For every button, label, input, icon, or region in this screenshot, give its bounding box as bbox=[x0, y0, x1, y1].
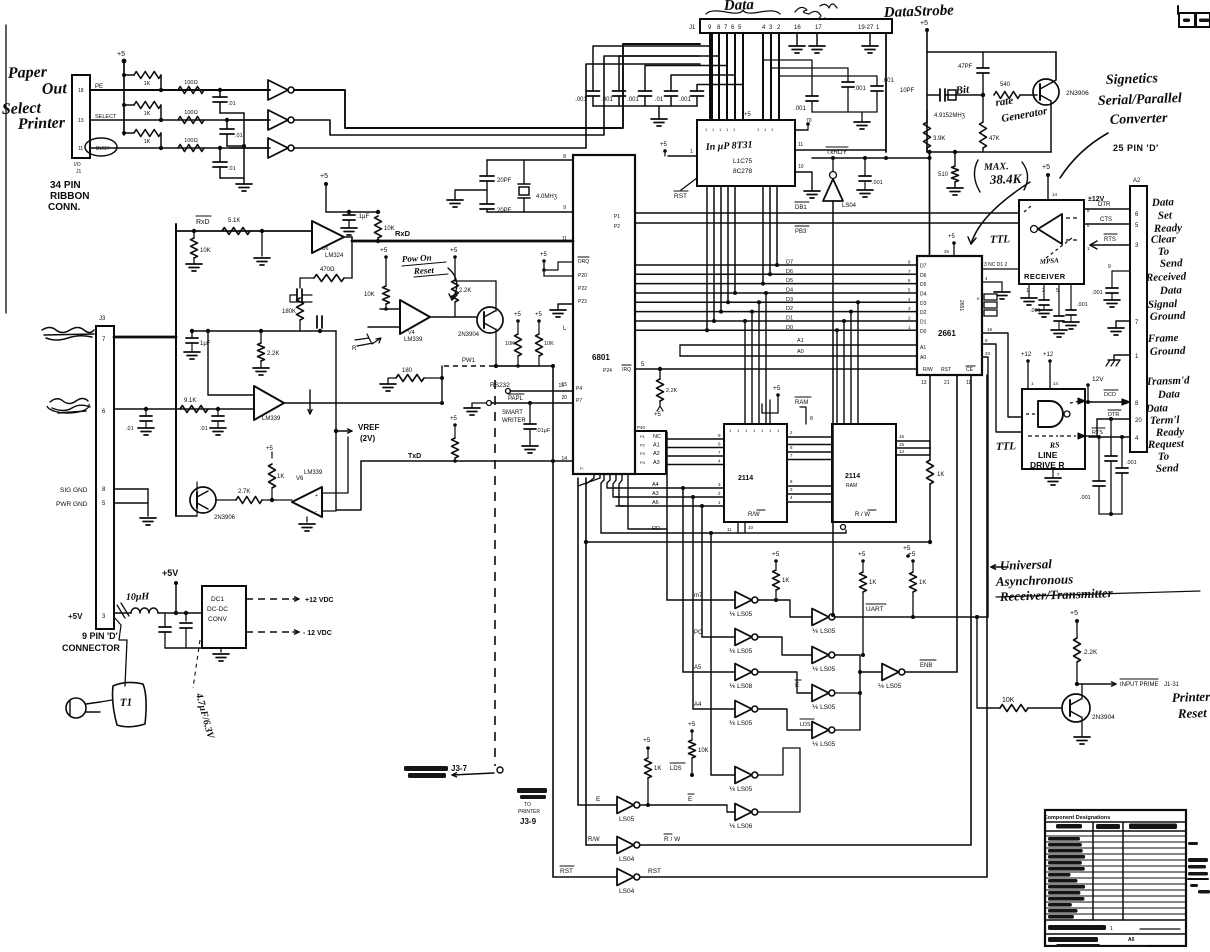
crystal 4.9152MHz bbox=[927, 94, 940, 96]
svg-text:2N3906: 2N3906 bbox=[1066, 90, 1089, 97]
left staircase bypass caps bbox=[593, 46, 710, 91]
svg-text:8: 8 bbox=[810, 416, 813, 422]
wire vertical x578 bbox=[577, 478, 579, 805]
svg-text:LINE: LINE bbox=[1038, 450, 1058, 460]
resistor 2.2K irq bbox=[658, 367, 662, 371]
svg-text:10: 10 bbox=[798, 164, 804, 170]
inverter U10c LS08 bbox=[683, 671, 735, 673]
svg-text:2.2K: 2.2K bbox=[1084, 649, 1098, 656]
resistor 10K to gnd bbox=[192, 229, 196, 233]
IC U4 2114 RAM bbox=[832, 424, 896, 522]
svg-text:⅙ LS05: ⅙ LS05 bbox=[729, 720, 753, 727]
dashed PW1 line bbox=[444, 365, 496, 367]
svg-text:⅙ LS05: ⅙ LS05 bbox=[878, 683, 902, 690]
handwriting Universal Asynchronous Receiver Transmitter bbox=[991, 566, 1008, 568]
2661 pin13 1K pullup bbox=[929, 375, 931, 460]
svg-text:+: + bbox=[315, 493, 318, 499]
driver AND gate bbox=[1038, 401, 1063, 427]
svg-text:DCD: DCD bbox=[1104, 392, 1116, 398]
svg-text:Send: Send bbox=[1160, 257, 1184, 270]
svg-text:+5: +5 bbox=[773, 385, 781, 392]
svg-text:J3: J3 bbox=[99, 316, 106, 322]
svg-text:Out: Out bbox=[42, 80, 68, 98]
svg-text:rate: rate bbox=[995, 95, 1014, 109]
bit rate osc top wire bbox=[927, 51, 1056, 53]
gnd mid bbox=[260, 229, 264, 233]
resistor 2.2K mid bbox=[259, 329, 263, 333]
IC U5 2661 EPCI bbox=[917, 256, 982, 375]
svg-text:100Ω: 100Ω bbox=[184, 110, 197, 116]
svg-text:D7: D7 bbox=[786, 260, 793, 266]
svg-text:CONNECTOR: CONNECTOR bbox=[62, 643, 120, 653]
svg-text:9 PIN 'D': 9 PIN 'D' bbox=[82, 631, 118, 641]
2661 to line driver wire2 bbox=[982, 344, 1022, 432]
svg-text:Transm'd: Transm'd bbox=[1146, 374, 1190, 388]
svg-text:Universal: Universal bbox=[1000, 556, 1053, 573]
svg-text:P4: P4 bbox=[640, 460, 646, 465]
svg-text:J1: J1 bbox=[76, 169, 82, 175]
svg-text:34 PIN: 34 PIN bbox=[50, 180, 81, 191]
cap .001 txrdy bbox=[863, 156, 867, 160]
wire PE row bbox=[90, 89, 270, 91]
svg-text:P1: P1 bbox=[640, 434, 646, 439]
6801 port extension block bbox=[635, 431, 666, 474]
svg-text:SIG GND: SIG GND bbox=[60, 487, 88, 494]
power gnd wire bbox=[165, 647, 221, 649]
svg-text:CE: CE bbox=[966, 367, 974, 373]
op-amp V6 LM339 left-facing bbox=[292, 487, 322, 517]
A2 area caps bbox=[1098, 437, 1100, 481]
arrow INPUT PRIME bbox=[1077, 683, 1116, 685]
svg-text:14: 14 bbox=[899, 449, 905, 454]
svg-text:D5: D5 bbox=[786, 278, 793, 284]
svg-text:4.9152MHʒ: 4.9152MHʒ bbox=[934, 113, 966, 119]
svg-text:J3-9: J3-9 bbox=[520, 817, 537, 826]
cap smart bbox=[528, 401, 532, 405]
wire data D2 bbox=[635, 311, 917, 313]
IC U1 6801 MPU bbox=[573, 155, 635, 474]
svg-text:D4: D4 bbox=[786, 288, 793, 294]
svg-text:D4: D4 bbox=[920, 292, 927, 298]
svg-text:E: E bbox=[596, 796, 601, 803]
osc bottom wire bbox=[927, 151, 1051, 153]
IC U7 1489 receiver bbox=[1019, 200, 1084, 284]
6801 bottom pin stubs bbox=[603, 474, 605, 480]
2661 pin21 vertical bbox=[956, 375, 958, 672]
svg-text:10K: 10K bbox=[544, 341, 554, 347]
svg-text:1K: 1K bbox=[937, 472, 944, 478]
svg-text:RST: RST bbox=[560, 868, 573, 875]
svg-text:11: 11 bbox=[798, 142, 803, 148]
svg-text:.001: .001 bbox=[627, 97, 639, 103]
wire gnd pins 8 5 bbox=[114, 488, 148, 490]
RAM R/W bottom wires bbox=[744, 522, 746, 533]
cap 1uF node bbox=[318, 329, 322, 333]
svg-text:5.1K: 5.1K bbox=[228, 218, 240, 224]
svg-text:+5: +5 bbox=[858, 551, 866, 558]
svg-text:+5: +5 bbox=[688, 721, 696, 728]
svg-text:LDS: LDS bbox=[800, 722, 811, 728]
transistor Q3 2N3904 bbox=[430, 316, 477, 318]
table footer bbox=[1048, 925, 1106, 930]
svg-text:⅙ LS06: ⅙ LS06 bbox=[729, 823, 753, 830]
scribble to printer J3-9 bbox=[517, 788, 547, 793]
wire data line bbox=[706, 186, 708, 330]
svg-text:P22: P22 bbox=[578, 286, 587, 292]
svg-text:A1: A1 bbox=[797, 338, 804, 344]
op-amp U6A bbox=[312, 221, 344, 253]
wires to RAM2 address pins bbox=[836, 330, 838, 424]
svg-text:11: 11 bbox=[727, 527, 732, 532]
inverter U11a LS05 output col2 bbox=[758, 600, 812, 617]
svg-text:180: 180 bbox=[402, 368, 413, 374]
svg-text:TO: TO bbox=[524, 802, 531, 808]
svg-text:R/W: R/W bbox=[748, 512, 760, 518]
svg-text:D6: D6 bbox=[786, 269, 793, 275]
svg-text:.01: .01 bbox=[228, 101, 236, 107]
wire RD feed bbox=[635, 528, 667, 530]
svg-text:R/W: R/W bbox=[588, 837, 600, 843]
wire data D0 bbox=[635, 329, 917, 331]
wire V5 output bbox=[284, 402, 442, 404]
svg-text:1K: 1K bbox=[654, 766, 661, 772]
receiver right wires CTS bbox=[1084, 223, 1130, 225]
2661 pin4 gnd bbox=[982, 281, 1002, 283]
svg-text:2.2K: 2.2K bbox=[459, 288, 471, 294]
svg-text:PAPL: PAPL bbox=[508, 396, 524, 402]
inverter U10e LS05 bbox=[711, 774, 735, 776]
svg-text:+5: +5 bbox=[643, 737, 651, 744]
svg-text:E: E bbox=[977, 296, 980, 301]
svg-text:+12: +12 bbox=[1021, 352, 1032, 358]
svg-text:TxD: TxD bbox=[408, 453, 421, 460]
svg-text:RAM: RAM bbox=[846, 483, 857, 489]
resistor 180K bbox=[299, 288, 301, 298]
svg-text:20: 20 bbox=[1135, 418, 1142, 424]
svg-text:2114: 2114 bbox=[845, 473, 860, 480]
wire to J3-7 bbox=[452, 773, 494, 775]
wire PB3 line bbox=[635, 222, 1019, 224]
J3 pin6 wire bbox=[114, 408, 254, 410]
svg-text:A1: A1 bbox=[920, 345, 926, 351]
svg-text:+5: +5 bbox=[660, 142, 668, 148]
wire vertical x586 bbox=[585, 478, 587, 845]
data bus vertical lines group1 bbox=[709, 33, 711, 120]
svg-text:LS05: LS05 bbox=[619, 816, 635, 823]
svg-text:CONN.: CONN. bbox=[48, 202, 80, 213]
inverter LS04 up bbox=[823, 179, 843, 201]
crystal gnd bbox=[455, 190, 487, 200]
svg-text:P2: P2 bbox=[614, 224, 620, 230]
svg-text:D5: D5 bbox=[920, 282, 927, 288]
svg-text:PWR GND: PWR GND bbox=[56, 501, 88, 508]
A2 pin7 gnd bbox=[1116, 321, 1130, 328]
wire data line bbox=[720, 186, 722, 312]
svg-text:TTL: TTL bbox=[996, 440, 1017, 453]
svg-text:+5: +5 bbox=[920, 20, 928, 27]
resistor 47K bbox=[981, 93, 985, 97]
resistor 1K pullup bbox=[122, 103, 126, 107]
svg-text:8: 8 bbox=[563, 154, 566, 160]
svg-text:RS: RS bbox=[1048, 440, 1060, 450]
svg-text:DRQ: DRQ bbox=[578, 259, 589, 265]
svg-text:DRIVE R: DRIVE R bbox=[1030, 460, 1064, 470]
svg-text:- 12 VDC: - 12 VDC bbox=[303, 630, 332, 637]
svg-text:P1: P1 bbox=[614, 214, 620, 220]
svg-text:⅙ LS05: ⅙ LS05 bbox=[812, 741, 836, 748]
svg-text:4.0MHʒ: 4.0MHʒ bbox=[536, 194, 558, 200]
wire inv5 out bbox=[758, 748, 783, 775]
inverter U13c LS04 RST bbox=[553, 876, 617, 878]
svg-text:14: 14 bbox=[1053, 381, 1059, 386]
ground J1 pin19-27 bbox=[869, 33, 871, 46]
svg-text:RECEIVER: RECEIVER bbox=[1024, 272, 1066, 281]
op-amp V4 LM339 bbox=[400, 300, 430, 334]
svg-text:D3: D3 bbox=[786, 297, 793, 303]
wire data D4 bbox=[635, 292, 917, 294]
svg-text:10μH: 10μH bbox=[126, 591, 151, 603]
svg-text:1: 1 bbox=[1110, 926, 1113, 932]
svg-text:⅙ LS05: ⅙ LS05 bbox=[729, 648, 753, 655]
svg-text:.1μF: .1μF bbox=[357, 214, 369, 220]
svg-text:+5: +5 bbox=[540, 252, 548, 258]
svg-text:R: R bbox=[352, 346, 357, 352]
wire data D7 bbox=[635, 264, 917, 266]
wire data D3 bbox=[635, 301, 917, 303]
driver to A2 wires bbox=[1085, 401, 1092, 403]
cap filter1 bbox=[164, 613, 166, 628]
wire RxD heavy bbox=[344, 236, 352, 238]
svg-text:CONV: CONV bbox=[208, 616, 227, 623]
svg-text:⅙ LS05: ⅙ LS05 bbox=[729, 611, 753, 618]
gnd stub P23 bbox=[558, 304, 573, 310]
pin 11 wire bbox=[795, 149, 886, 151]
IC U2 8T31 buffer bbox=[697, 120, 795, 186]
svg-text:DC-DC: DC-DC bbox=[207, 606, 228, 613]
svg-text:Converter: Converter bbox=[1110, 111, 1169, 128]
svg-text:Printer: Printer bbox=[17, 114, 66, 133]
svg-text:+5: +5 bbox=[772, 551, 780, 558]
crystal element bbox=[523, 160, 525, 184]
resistor 2.2K reset bbox=[1074, 638, 1081, 662]
wire ENB bbox=[905, 671, 957, 673]
svg-text:510: 510 bbox=[938, 172, 949, 178]
svg-text:2N3904: 2N3904 bbox=[458, 332, 480, 338]
wire data line bbox=[713, 186, 715, 321]
2661 R/W vertical bbox=[970, 375, 972, 845]
ground J1 pin16 bbox=[796, 33, 798, 46]
svg-text:P:: P: bbox=[580, 466, 584, 471]
capacitor .01 row1 bbox=[218, 88, 222, 92]
svg-text:16: 16 bbox=[794, 25, 801, 31]
svg-text:R/W: R/W bbox=[923, 367, 933, 373]
resistor 100 ohm bbox=[178, 117, 204, 124]
svg-text:RxD: RxD bbox=[395, 229, 411, 238]
svg-text:P7: P7 bbox=[576, 398, 582, 404]
svg-text:20PF: 20PF bbox=[497, 178, 512, 184]
svg-text:PRINTER: PRINTER bbox=[518, 809, 540, 815]
svg-text:INPUT PRIME: INPUT PRIME bbox=[1120, 682, 1159, 688]
pin 70 +5 stub bbox=[795, 129, 808, 131]
svg-text:10K: 10K bbox=[364, 292, 375, 298]
svg-text:LS04: LS04 bbox=[619, 888, 635, 895]
transformer T1 bbox=[113, 682, 147, 726]
wire TxD bbox=[361, 460, 573, 462]
svg-text:+5: +5 bbox=[450, 416, 458, 422]
svg-text:I/O: I/O bbox=[74, 162, 81, 168]
wire E out bbox=[640, 804, 727, 806]
svg-text:100Ω: 100Ω bbox=[184, 80, 197, 86]
wire RxD input row bbox=[176, 230, 312, 232]
AC plug bbox=[66, 698, 86, 718]
IC U8 1488 line driver bbox=[1022, 389, 1085, 469]
svg-text:VREF: VREF bbox=[358, 423, 379, 432]
svg-text:.001: .001 bbox=[679, 97, 691, 103]
svg-text:T1: T1 bbox=[120, 697, 133, 709]
svg-text:D0: D0 bbox=[920, 329, 927, 335]
uart to base vertical bbox=[976, 617, 978, 708]
svg-text:.001: .001 bbox=[1077, 302, 1088, 308]
svg-text:R / W: R / W bbox=[855, 512, 870, 518]
svg-text:IRQ: IRQ bbox=[622, 367, 631, 373]
wire A1 row bbox=[680, 344, 917, 346]
resistor 2.7K base bbox=[216, 499, 236, 501]
svg-text:⅙ LS05: ⅙ LS05 bbox=[812, 628, 836, 635]
svg-text:P2: P2 bbox=[640, 443, 646, 448]
scribble gnd note bbox=[795, 7, 825, 19]
svg-text:+5: +5 bbox=[654, 412, 662, 418]
svg-text:LDS: LDS bbox=[670, 766, 682, 772]
svg-text:Data: Data bbox=[1151, 196, 1175, 209]
svg-text:Data: Data bbox=[1159, 284, 1183, 297]
resistor 540 bbox=[983, 88, 994, 90]
svg-text:PC: PC bbox=[694, 630, 703, 636]
wire data line bbox=[762, 186, 764, 284]
-12VDC output bbox=[246, 631, 293, 633]
inverter U13b LS04 RW bbox=[586, 844, 617, 846]
svg-text:A2: A2 bbox=[1133, 178, 1141, 184]
svg-text:1: 1 bbox=[690, 149, 693, 155]
cap 2 j3 bbox=[216, 407, 220, 411]
analog mid wire bbox=[192, 330, 336, 332]
svg-text:11: 11 bbox=[78, 146, 83, 152]
svg-text:2661: 2661 bbox=[938, 329, 956, 338]
svg-text:⅙ LS05: ⅙ LS05 bbox=[812, 666, 836, 673]
wire inv2 out bbox=[185, 119, 294, 121]
cap 1uF left bbox=[190, 329, 194, 333]
svg-text:540: 540 bbox=[1000, 82, 1011, 88]
svg-text:.001: .001 bbox=[1030, 308, 1041, 314]
component designation table bbox=[1045, 810, 1186, 946]
wire J3 pin3 bbox=[114, 612, 131, 614]
svg-text:Paper: Paper bbox=[7, 64, 48, 82]
svg-text:13: 13 bbox=[78, 118, 84, 124]
svg-text:V6: V6 bbox=[296, 476, 304, 482]
scribble crossed out label2 bbox=[50, 399, 90, 414]
svg-text:V4: V4 bbox=[408, 330, 415, 336]
svg-text:.001: .001 bbox=[854, 86, 866, 92]
svg-text:.01: .01 bbox=[228, 166, 236, 172]
svg-text:9: 9 bbox=[1108, 264, 1111, 270]
svg-text:RIBBON: RIBBON bbox=[50, 191, 89, 202]
svg-text:Received: Received bbox=[1145, 271, 1187, 284]
svg-text:.01μF: .01μF bbox=[536, 428, 551, 434]
wire UART out bbox=[835, 616, 988, 618]
svg-text:.01: .01 bbox=[200, 426, 208, 432]
svg-text:LS04: LS04 bbox=[842, 203, 857, 209]
+12VDC output bbox=[246, 598, 293, 600]
swoosh curve bbox=[1060, 133, 1108, 178]
resistor 1K pullup bbox=[122, 131, 126, 135]
svg-text:1K: 1K bbox=[277, 474, 284, 480]
svg-text:DC1: DC1 bbox=[211, 596, 224, 603]
svg-text:+5: +5 bbox=[535, 312, 543, 318]
receiver triangle bbox=[1038, 214, 1062, 244]
svg-text:D1: D1 bbox=[786, 316, 793, 322]
svg-text:P3: P3 bbox=[640, 451, 646, 456]
wire TxRDY bbox=[812, 157, 930, 159]
svg-text:RTS: RTS bbox=[1104, 237, 1116, 243]
svg-text:.001: .001 bbox=[1080, 495, 1091, 501]
svg-text:U6: U6 bbox=[322, 246, 329, 252]
LS04 input vertical bbox=[832, 201, 834, 615]
inverter U10f LS06 bbox=[727, 811, 735, 813]
svg-text:+5: +5 bbox=[908, 551, 916, 558]
svg-text:16: 16 bbox=[899, 434, 905, 439]
svg-text:D2: D2 bbox=[786, 306, 793, 312]
capacitor .01 row3 bbox=[218, 146, 222, 150]
svg-text:100Ω: 100Ω bbox=[184, 138, 197, 144]
RAM2 right rows to pullup bbox=[896, 440, 930, 442]
svg-text:.001: .001 bbox=[575, 97, 587, 103]
svg-text:470Ω: 470Ω bbox=[320, 267, 335, 273]
RD row bbox=[601, 532, 738, 534]
svg-text:25 PIN 'D': 25 PIN 'D' bbox=[1113, 143, 1159, 153]
svg-text:Reset: Reset bbox=[413, 265, 435, 276]
svg-text:26: 26 bbox=[944, 249, 950, 254]
IC U3 2114 RAM bbox=[724, 424, 787, 522]
svg-text:⅙ LS05: ⅙ LS05 bbox=[729, 786, 753, 793]
inverter U11b LS05 bbox=[758, 637, 812, 655]
svg-text:Printer: Printer bbox=[1172, 689, 1210, 705]
VREF arrow bbox=[335, 331, 337, 510]
RST stub bbox=[681, 178, 697, 190]
svg-text:A6: A6 bbox=[652, 500, 659, 506]
inverter U10b LS05 bbox=[702, 636, 735, 638]
svg-text:1K: 1K bbox=[144, 81, 151, 87]
arrow to 2661 clock pin bbox=[971, 182, 1030, 244]
svg-text:21: 21 bbox=[944, 380, 950, 386]
inverter buffer row1 bbox=[230, 89, 268, 91]
resistor 510 to gnd bbox=[953, 150, 957, 154]
wire data D1 bbox=[635, 320, 917, 322]
wire R/W long bbox=[640, 844, 971, 846]
svg-text:D0: D0 bbox=[786, 325, 793, 331]
resistor 1K vref bbox=[270, 498, 274, 502]
svg-text:1K: 1K bbox=[869, 580, 876, 586]
svg-text:Serial/Parallel: Serial/Parallel bbox=[1098, 91, 1183, 109]
svg-text:1μF: 1μF bbox=[200, 341, 211, 347]
svg-text:+5: +5 bbox=[514, 312, 522, 318]
svg-text:15: 15 bbox=[899, 442, 905, 447]
wire data D5 bbox=[635, 283, 917, 285]
svg-text:.001: .001 bbox=[882, 78, 894, 84]
svg-text:Request: Request bbox=[1147, 438, 1185, 451]
driver gnd bbox=[1052, 469, 1054, 478]
wire data D6 bbox=[635, 273, 917, 275]
svg-text:2114: 2114 bbox=[738, 475, 753, 482]
page edge line bbox=[5, 25, 7, 313]
